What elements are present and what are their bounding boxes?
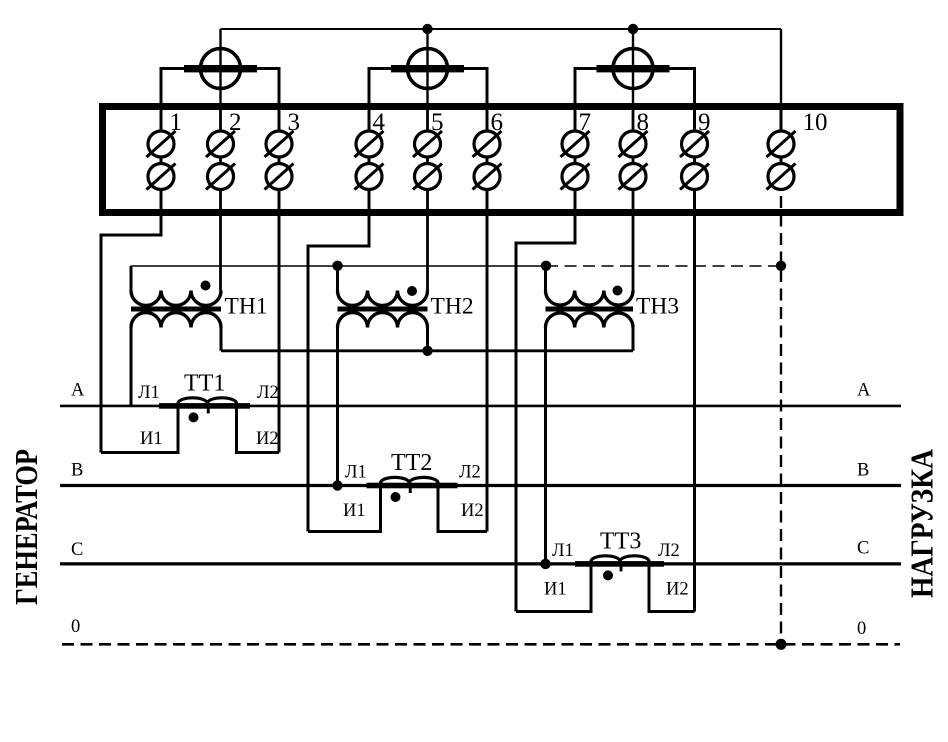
svg-text:ГЕНЕРАТОР: ГЕНЕРАТОР	[8, 449, 44, 605]
svg-text:8: 8	[637, 109, 650, 136]
svg-text:С: С	[71, 540, 83, 560]
svg-text:В: В	[857, 461, 869, 481]
svg-text:ТТ3: ТТ3	[600, 529, 641, 555]
svg-text:7: 7	[579, 109, 592, 136]
svg-text:НАГРУЗКА: НАГРУЗКА	[904, 449, 940, 598]
svg-text:В: В	[71, 461, 83, 481]
svg-text:А: А	[71, 381, 85, 401]
svg-text:0: 0	[857, 619, 866, 639]
svg-text:10: 10	[803, 109, 828, 136]
svg-text:А: А	[857, 381, 871, 401]
svg-text:И2: И2	[666, 580, 689, 600]
svg-text:ТТ1: ТТ1	[184, 371, 225, 397]
svg-text:И1: И1	[544, 580, 567, 600]
svg-text:И2: И2	[461, 501, 484, 521]
svg-text:ТН1: ТН1	[225, 294, 268, 320]
svg-text:ТН3: ТН3	[636, 294, 679, 320]
svg-text:3: 3	[288, 109, 301, 136]
svg-text:ТН2: ТН2	[431, 294, 474, 320]
svg-text:И1: И1	[343, 501, 366, 521]
svg-text:9: 9	[698, 109, 711, 136]
svg-text:Л1: Л1	[552, 541, 574, 561]
svg-text:С: С	[857, 539, 869, 559]
svg-text:И2: И2	[256, 429, 279, 449]
svg-text:5: 5	[431, 109, 444, 136]
svg-text:Л1: Л1	[345, 463, 367, 483]
svg-text:И1: И1	[140, 429, 163, 449]
svg-text:2: 2	[229, 109, 242, 136]
svg-text:0: 0	[71, 617, 80, 637]
svg-text:Л2: Л2	[459, 463, 481, 483]
svg-text:Л1: Л1	[138, 383, 160, 403]
svg-text:Л2: Л2	[658, 541, 680, 561]
svg-text:Л2: Л2	[257, 383, 279, 403]
svg-text:1: 1	[170, 109, 183, 136]
svg-text:6: 6	[491, 109, 504, 136]
svg-text:ТТ2: ТТ2	[391, 450, 432, 476]
svg-text:4: 4	[373, 109, 386, 136]
